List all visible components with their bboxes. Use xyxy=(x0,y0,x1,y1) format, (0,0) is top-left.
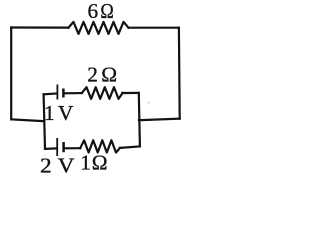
svg-text:Ω: Ω xyxy=(100,0,113,23)
svg-text:V: V xyxy=(58,154,76,178)
wire top-left segment of outer loop xyxy=(11,26,68,28)
wire left vertical of outer loop xyxy=(10,28,12,120)
resistor 1 ohm zigzag xyxy=(80,140,120,152)
wire inner mesh left edge xyxy=(44,94,45,149)
battery cell 2V long positive plate xyxy=(56,138,58,156)
resistor 6 ohm zigzag xyxy=(69,22,129,34)
svg-text:2: 2 xyxy=(40,154,52,178)
svg-text:Ω: Ω xyxy=(101,63,117,87)
wire bottom branch from left corner to battery 2V xyxy=(45,147,56,150)
battery cell 1V short negative plate xyxy=(62,89,65,98)
faint plus artifact near right connector xyxy=(147,101,150,104)
battery cell 2V short negative plate xyxy=(62,142,65,152)
wire top-right segment of outer loop xyxy=(129,27,179,29)
wire bottom branch from resistor 1 ohm to right corner xyxy=(120,146,140,148)
svg-text:V: V xyxy=(58,101,74,125)
svg-text:2: 2 xyxy=(87,63,98,87)
svg-text:6: 6 xyxy=(88,0,99,23)
wire top branch from resistor 2 ohm to right corner xyxy=(122,92,139,94)
wire top branch from left corner to battery 1V xyxy=(44,92,57,95)
wire bottom branch from battery 2V to resistor 1 ohm xyxy=(65,147,81,149)
wire right vertical of outer loop xyxy=(178,28,181,119)
svg-text:Ω: Ω xyxy=(92,151,108,175)
resistor 2 ohm zigzag xyxy=(82,87,123,99)
wire right connector to inner mesh xyxy=(139,119,180,121)
battery cell 1V long positive plate xyxy=(56,85,58,100)
wire inner mesh right edge xyxy=(139,93,140,146)
wire left connector to inner mesh xyxy=(11,119,44,121)
wire top branch from battery 1V to resistor 2 ohm xyxy=(64,92,81,94)
svg-text:1: 1 xyxy=(80,151,91,175)
svg-text:1: 1 xyxy=(44,101,55,125)
